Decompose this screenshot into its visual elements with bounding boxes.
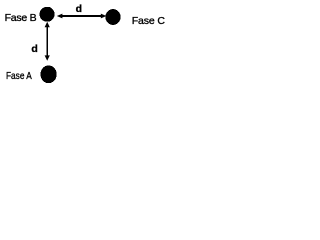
- node Fase A: [41, 65, 57, 83]
- svg-text:d: d: [76, 3, 82, 15]
- wire: vertical double arrow d between Fase B and Fase A: [45, 22, 50, 61]
- node Fase C: [105, 9, 120, 25]
- wire: horizontal double arrow d between Fase B and Fase C: [57, 14, 107, 19]
- svg-text:Fase C: Fase C: [132, 15, 166, 27]
- node Fase B: [40, 7, 55, 22]
- svg-text:Fase B: Fase B: [5, 12, 37, 24]
- svg-text:Fase A: Fase A: [6, 70, 32, 82]
- svg-text:d: d: [31, 43, 37, 55]
